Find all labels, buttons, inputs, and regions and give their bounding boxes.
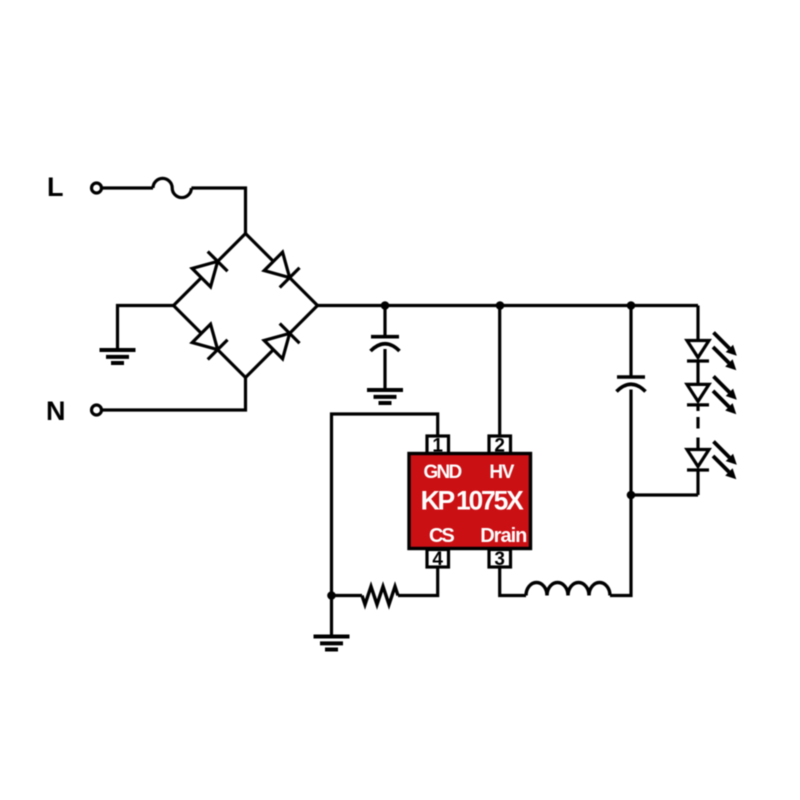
wire LED2 stub xyxy=(696,405,699,411)
LED D6 light arrow a xyxy=(714,376,737,399)
wire C1 to ground xyxy=(383,349,386,390)
wire pin 3 to inductor xyxy=(500,567,526,596)
LED D7 light arrow b xyxy=(713,456,736,479)
ground left xyxy=(100,350,136,363)
wire GND pin 1 to CS node xyxy=(332,414,438,596)
bridge edge top-left wire xyxy=(174,234,246,306)
wire LED3 stub xyxy=(696,446,699,450)
wire CS node to ground xyxy=(330,596,333,637)
svg-text:HV: HV xyxy=(489,462,514,483)
LED D6 light arrow b xyxy=(713,391,736,414)
LED D5 xyxy=(687,341,709,362)
wire LED3 to output rail xyxy=(696,470,699,495)
LED D5 light arrow a xyxy=(714,333,737,356)
terminal N xyxy=(92,405,102,415)
bridge edge bottom-left wire xyxy=(174,306,246,378)
pin 2 box xyxy=(489,436,511,454)
terminal L xyxy=(92,183,102,193)
junction dot C1 rail xyxy=(381,301,390,310)
fuse F1 xyxy=(153,178,191,197)
resistor R1 xyxy=(362,587,398,605)
diode D4 xyxy=(263,323,299,359)
ground C1 xyxy=(367,390,403,403)
wire inductor to output node xyxy=(610,495,631,596)
svg-text:Drain: Drain xyxy=(480,525,526,547)
junction dot HV rail xyxy=(496,301,505,310)
LED D6 xyxy=(687,384,709,405)
diode D1 xyxy=(191,251,227,287)
pin 4 box xyxy=(427,550,449,568)
capacitor C1 xyxy=(371,337,400,351)
inductor L1 xyxy=(526,583,610,596)
wire C2 to output node xyxy=(629,390,632,496)
svg-text:CS: CS xyxy=(429,525,454,547)
pin 1 box xyxy=(427,436,449,454)
wire fuse to corner xyxy=(191,188,245,234)
wire rail to C2 xyxy=(629,306,632,376)
wire HV pin 2 xyxy=(498,306,501,438)
ground CS xyxy=(314,637,350,650)
svg-text:KP1075X: KP1075X xyxy=(421,486,525,516)
svg-text:4: 4 xyxy=(432,549,443,570)
wire output node to LED cathode xyxy=(631,493,698,496)
LED D7 light arrow a xyxy=(714,442,737,465)
svg-text:N: N xyxy=(46,396,66,426)
junction dot CS node xyxy=(327,591,336,600)
diode D3 xyxy=(191,323,227,359)
wire bridge left to ground xyxy=(118,306,174,351)
wire pin 4 to resistor xyxy=(398,567,438,596)
LED D5 light arrow b xyxy=(713,347,736,370)
svg-text:3: 3 xyxy=(494,549,505,570)
wire main rail xyxy=(318,304,699,307)
capacitor C2 xyxy=(617,377,646,392)
bridge edge bottom-right wire xyxy=(246,306,318,378)
pin 3 box xyxy=(489,550,511,568)
diode D2 xyxy=(263,251,299,287)
wire L terminal to fuse xyxy=(102,186,154,189)
wire rail corner to LED1 xyxy=(696,306,699,341)
LED D7 xyxy=(687,450,709,471)
wire rail to C1 xyxy=(383,306,386,336)
wire LED1 to LED2 xyxy=(696,361,699,384)
svg-text:L: L xyxy=(47,172,64,202)
svg-text:GND: GND xyxy=(423,462,461,483)
IC U1 KP1075X body xyxy=(409,454,531,549)
junction dot C2 rail xyxy=(627,301,636,310)
wire N to bridge bottom xyxy=(102,378,246,411)
wire resistor to CS ground node xyxy=(332,594,363,597)
wire dashed LED string xyxy=(696,417,699,446)
junction dot output node xyxy=(627,491,636,500)
bridge edge top-right wire xyxy=(246,234,318,306)
